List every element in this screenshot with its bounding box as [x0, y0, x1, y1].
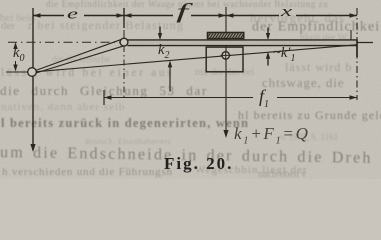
extension line B lower reach to circle	[123, 30, 125, 38]
beam axis dash-dot line	[8, 41, 352, 43]
k0 arrow heads	[13, 42, 17, 49]
paper background	[0, 0, 381, 179]
extension line B dash-dot below	[123, 46, 125, 98]
knife-edge line	[36, 45, 356, 72]
arrow x right	[350, 13, 358, 18]
extension line left (x=33)	[32, 8, 34, 68]
figure ink	[6, 7, 373, 150]
arrowheads	[13, 13, 357, 152]
middle small circle on beam	[120, 38, 128, 46]
beam top edge	[128, 39, 358, 41]
wedge lower edge	[36, 46, 124, 73]
arrow e left	[33, 13, 41, 18]
arrows at tick C	[219, 13, 227, 18]
hatched support block	[205, 31, 248, 41]
k1 up arrow shaft	[267, 54, 269, 66]
f1 dimension line	[104, 97, 357, 99]
stirrup rectangle	[206, 47, 243, 72]
left force arrowhead	[30, 144, 35, 152]
beam bottom edge	[128, 45, 358, 47]
f1 arrowheads	[104, 95, 112, 100]
k0 reference line left	[6, 71, 28, 73]
left force arrow	[32, 77, 34, 151]
paper grain overlay	[0, 0, 381, 179]
centerline (x=226)	[225, 7, 227, 136]
dimension line e segment	[33, 15, 124, 17]
left end knife circle	[28, 68, 37, 77]
beam axis overhang dash at right end	[353, 42, 374, 44]
middle knife circle	[222, 52, 229, 59]
wedge upper edge	[36, 38, 125, 70]
crosshair through middle knife	[221, 51, 232, 61]
extension line right dash-dot (x=357)	[356, 8, 358, 100]
dimension line x segment	[226, 15, 357, 17]
f1 tick	[103, 90, 105, 105]
Q force arrowhead	[223, 130, 228, 138]
k2 arrowheads	[158, 33, 162, 40]
k0 arrow shaft	[15, 44, 17, 70]
ghost text layer	[0, 0, 381, 180]
beam body tint	[128, 40, 358, 45]
k1 arrowheads	[266, 33, 270, 40]
dimension line f segment	[124, 15, 226, 17]
k2 up arrow shaft	[169, 63, 171, 92]
small vertical mark near right end	[350, 30, 352, 40]
extension line B (x=124)	[123, 8, 125, 28]
k1 down arrow shaft	[267, 28, 269, 39]
k2 down arrow shaft	[159, 27, 161, 39]
svg-text:Fig. 20.: Fig. 20.	[164, 154, 233, 173]
arrows at tick B	[117, 13, 125, 18]
beam right end	[356, 40, 358, 58]
